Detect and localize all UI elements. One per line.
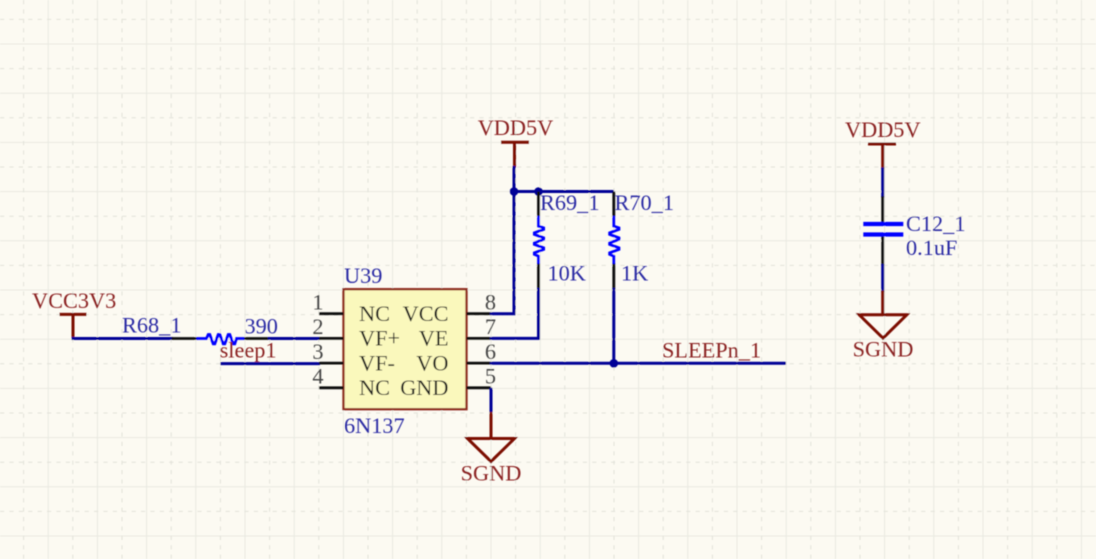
junction dot VDD5V node (510, 187, 519, 196)
svg-text:VE: VE (419, 326, 449, 351)
svg-text:sleep1: sleep1 (220, 338, 277, 363)
svg-text:VF+: VF+ (359, 326, 400, 351)
pin 5 (GND) (467, 364, 497, 389)
svg-text:3: 3 (312, 339, 323, 364)
resistor R69_1 vertical (534, 192, 543, 290)
wire net sleep1 to pin 3 (220, 362, 320, 365)
power port VCC3V3 (32, 288, 116, 339)
pin 2 (VF+) (312, 314, 343, 339)
svg-text:VCC3V3: VCC3V3 (32, 288, 116, 313)
svg-text:4: 4 (312, 364, 323, 389)
svg-text:5: 5 (485, 364, 496, 389)
pin 8 (VCC) (467, 290, 497, 315)
wire R68 to pin 2 (268, 337, 320, 340)
junction dot R69 top (534, 187, 543, 196)
optocoupler U39 body (344, 289, 467, 409)
pin 4 (NC) (312, 364, 343, 389)
wire R70 bottom to net SLEEPn_1 (612, 288, 615, 363)
wire pin 5 to SGND (490, 388, 493, 413)
svg-text:1: 1 (312, 290, 323, 315)
power port VDD5V center (478, 115, 554, 168)
svg-text:VF-: VF- (359, 350, 395, 375)
wire VCC3V3 to R68 (72, 337, 174, 340)
wire C12 to SGND (881, 264, 884, 292)
wire junction to R70 top (514, 190, 614, 193)
svg-text:1K: 1K (621, 261, 648, 286)
resistor R68_1 horizontal (172, 335, 270, 344)
svg-text:8: 8 (485, 290, 496, 315)
power port VDD5V right (845, 117, 921, 169)
junction dot SLEEPn_1 (610, 359, 619, 368)
svg-text:NC: NC (359, 375, 390, 400)
resistor R70_1 vertical (610, 192, 619, 290)
svg-text:VDD5V: VDD5V (845, 117, 921, 142)
svg-text:R69_1: R69_1 (540, 190, 599, 215)
svg-text:SGND: SGND (853, 337, 914, 362)
svg-text:6N137: 6N137 (344, 413, 405, 438)
svg-text:R68_1: R68_1 (122, 313, 181, 338)
wire vertical junction to pin 8 (490, 192, 514, 314)
svg-text:GND: GND (400, 375, 448, 400)
pin 7 (VE) (467, 314, 497, 339)
wire R69 bottom to pin 7 (490, 288, 539, 338)
svg-text:SLEEPn_1: SLEEPn_1 (662, 338, 761, 363)
wire VDD5V to C12 (881, 168, 884, 198)
svg-text:10K: 10K (548, 261, 586, 286)
wire VDD5V down to junction (513, 166, 516, 193)
capacitor C12_1 (863, 196, 903, 265)
svg-text:NC: NC (359, 301, 390, 326)
wire net SLEEPn_1 (490, 362, 786, 365)
svg-text:2: 2 (312, 314, 323, 339)
svg-text:U39: U39 (344, 263, 382, 288)
svg-text:VO: VO (416, 350, 448, 375)
ground SGND right (853, 291, 914, 362)
pin 3 (VF-) (312, 339, 343, 364)
svg-text:VCC: VCC (403, 301, 449, 326)
svg-text:7: 7 (485, 314, 496, 339)
svg-text:SGND: SGND (461, 461, 522, 486)
svg-text:390: 390 (245, 314, 278, 339)
svg-text:R70_1: R70_1 (615, 190, 674, 215)
svg-text:C12_1: C12_1 (906, 211, 965, 236)
pin 1 (NC) (312, 290, 343, 315)
pin 6 (VO) (467, 339, 497, 364)
svg-text:0.1uF: 0.1uF (906, 235, 957, 260)
svg-text:6: 6 (485, 339, 496, 364)
svg-text:VDD5V: VDD5V (478, 115, 554, 140)
ground SGND center (461, 412, 522, 486)
